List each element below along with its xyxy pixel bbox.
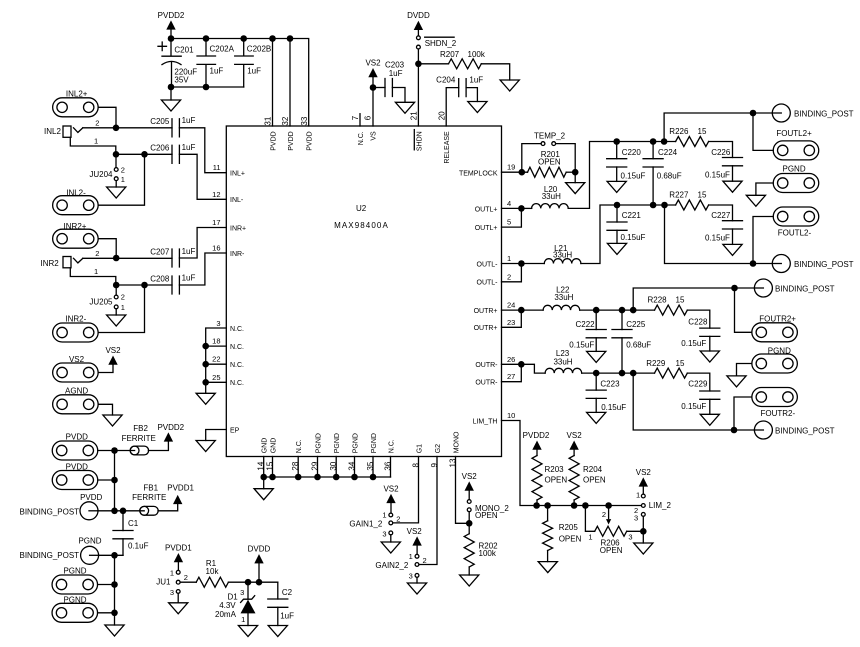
ground below GAIN1_2 (381, 542, 400, 553)
svg-text:INR-: INR- (230, 251, 245, 258)
wire R201 to node (566, 171, 575, 173)
junction PGND bus bottom (111, 610, 118, 617)
ground below R205 (538, 562, 557, 573)
junction C201 bottom (168, 84, 175, 91)
svg-text:1uF: 1uF (182, 274, 196, 283)
jumper TEMP_2 pin (left) (541, 142, 545, 146)
junction C224 top (650, 138, 657, 145)
wire pin 19 TEMPLOCK (502, 171, 528, 173)
wire pin 14 to rail (263, 457, 265, 478)
capacitor C222 plates (586, 330, 606, 338)
junction PGND bus top (111, 552, 118, 559)
capacitor C1 0.1uF (122, 511, 124, 531)
svg-text:OUTL+: OUTL+ (475, 225, 498, 232)
svg-text:N.C.: N.C. (230, 344, 244, 351)
ground below R201 (566, 183, 585, 194)
svg-text:N.C.: N.C. (389, 439, 396, 453)
svg-text:0.68uF: 0.68uF (626, 341, 651, 350)
wire GAIN2_2 to ground (416, 577, 418, 583)
junction C202A bottom (203, 84, 210, 91)
wire pin 29 to rail (317, 457, 319, 478)
wire PGND bpost to C1 node (99, 554, 123, 556)
svg-text:21: 21 (410, 111, 419, 120)
svg-text:32: 32 (281, 116, 290, 125)
svg-text:LIM_2: LIM_2 (649, 501, 672, 510)
wire pin 34 to rail (354, 457, 356, 478)
svg-text:SHDN_2: SHDN_2 (425, 39, 457, 48)
svg-text:PVDD: PVDD (66, 433, 88, 442)
junction TEMPLOCK left (519, 169, 526, 176)
svg-text:7: 7 (351, 115, 360, 120)
junction INL2 pin2 (113, 125, 120, 132)
ground below C226 (723, 181, 742, 192)
capacitor C224 plates (643, 159, 663, 167)
wire to R207 (418, 63, 448, 65)
binding post FOUTL2- (773, 207, 819, 226)
ground below C228 (700, 351, 719, 362)
svg-text:C226: C226 (711, 148, 731, 157)
junction C225 top (619, 307, 626, 314)
capacitor C206 1uF plates (172, 145, 179, 163)
svg-text:2: 2 (396, 514, 400, 523)
binding post INL2+ (53, 98, 99, 117)
svg-text:0.15uF: 0.15uF (705, 234, 730, 243)
svg-text:FOUTL2-: FOUTL2- (778, 229, 812, 238)
wire PGND bus (114, 555, 116, 613)
overline for SHDN pin label (413, 130, 415, 150)
wire pin 9 G2 to GAIN2_2 (419, 457, 437, 565)
jumper JU205 pin 2 (114, 295, 118, 299)
binding post FOUTL2+ (773, 141, 819, 160)
svg-text:1uF: 1uF (182, 116, 196, 125)
svg-text:PVDD: PVDD (80, 493, 102, 502)
svg-text:R207: R207 (440, 50, 460, 59)
svg-text:GND: GND (262, 438, 269, 454)
svg-text:3: 3 (240, 588, 244, 597)
wire PVDD bus (114, 451, 116, 511)
svg-text:0.15uF: 0.15uF (569, 341, 594, 350)
junction VS2/C203 (370, 84, 377, 91)
capacitor C203 plates (385, 79, 392, 97)
svg-text:16: 16 (212, 244, 220, 253)
svg-text:15: 15 (698, 190, 707, 199)
svg-text:BINDING_POST: BINDING_POST (775, 284, 835, 293)
junction FOUTL2+ tap (750, 110, 757, 117)
svg-text:0.15uF: 0.15uF (681, 402, 706, 411)
svg-text:33uH: 33uH (553, 358, 572, 367)
junction OUTR+ pins (518, 307, 525, 314)
svg-text:2: 2 (121, 165, 125, 174)
wire OUTL+ to binding post (664, 113, 772, 142)
svg-text:1: 1 (409, 552, 413, 561)
junction D1 (245, 579, 252, 586)
junction C223 (593, 370, 600, 377)
svg-text:BINDING_POST: BINDING_POST (20, 508, 80, 517)
junction INL2 pin1 (113, 151, 120, 158)
svg-text:JU204: JU204 (89, 170, 113, 179)
svg-text:BINDING_POST: BINDING_POST (794, 260, 854, 269)
wire TEMP_2 right to node (556, 144, 576, 173)
wire capacitor bottom rail (171, 86, 244, 88)
binding post PGND (FOUTL2) (773, 174, 819, 193)
svg-text:C204: C204 (436, 76, 456, 85)
wire L21 to OUTL- filter rail (581, 205, 676, 264)
binding post PVDD 1 (52, 441, 98, 460)
wire OUTL- to binding post (665, 205, 773, 264)
junction R206/LIM_2 pin 3 (640, 528, 647, 535)
svg-text:1uF: 1uF (247, 67, 261, 76)
svg-text:15: 15 (676, 359, 685, 368)
resistor R201 OPEN (528, 167, 567, 177)
wire MONO_2 to node (468, 512, 470, 524)
capacitor C227 0.15uF plates (723, 221, 743, 229)
resistor R205 OPEN (543, 521, 553, 551)
capacitor C202A 1uF (197, 39, 216, 88)
svg-text:JU1: JU1 (156, 578, 171, 587)
svg-text:1: 1 (636, 490, 640, 499)
wire R204 to rail (573, 500, 575, 506)
svg-text:1: 1 (94, 267, 98, 276)
svg-text:FOUTR2-: FOUTR2- (761, 409, 796, 418)
capacitor C208 1uF plates (172, 276, 179, 294)
svg-text:BINDING_POST: BINDING_POST (20, 551, 80, 560)
junction INR2 pin1 (113, 282, 120, 289)
wire rail to R205 (547, 506, 549, 521)
svg-text:3: 3 (409, 571, 413, 580)
svg-text:11: 11 (213, 163, 221, 172)
junction C220 (613, 138, 620, 145)
capacitor C229 0.15uF plates (700, 391, 720, 399)
jumper GAIN1_2 pin 1 (389, 513, 393, 517)
binding post PVDD 2 (52, 471, 98, 490)
capacitor C221 0.15uF (616, 205, 618, 222)
svg-text:27: 27 (507, 372, 515, 381)
binding post INR2+ (53, 229, 99, 248)
jumper JU205 pin 1 (114, 305, 118, 309)
resistor R229 15 (655, 368, 688, 378)
svg-text:FOUTL2+: FOUTL2+ (776, 129, 812, 138)
capacitor C228 0.15uF plates (700, 328, 720, 336)
capacitor C220 plates (607, 159, 627, 167)
jumper LIM_2 pin 3 (641, 513, 645, 517)
svg-text:OUTL+: OUTL+ (475, 206, 498, 213)
wire PVDD2 rail to pin 33 (171, 39, 309, 127)
svg-text:100k: 100k (479, 549, 497, 558)
wire R229 to C229 (687, 373, 710, 391)
wire PGND post to ground (737, 364, 752, 376)
wire to FOUTL2- (753, 217, 773, 264)
svg-text:EP: EP (230, 427, 240, 434)
junction on ground rail (269, 474, 276, 481)
svg-text:OUTR-: OUTR- (475, 362, 498, 369)
wire pin 23 OUTR+ (502, 310, 522, 327)
ground below PGND post (FOUTR2) (727, 376, 746, 387)
wire to FOUTL2+ (753, 113, 773, 150)
svg-text:PGND: PGND (78, 537, 101, 546)
ground below GAIN2_2 (407, 583, 426, 594)
wire node to R202 (468, 523, 470, 533)
junction on PVDD2 rail (168, 35, 175, 42)
resistor R204 zigzag (569, 456, 579, 500)
power symbol VS2 at R204 (567, 431, 583, 456)
svg-text:AGND: AGND (65, 386, 88, 395)
svg-text:C228: C228 (688, 317, 708, 326)
binding post AGND (53, 395, 99, 414)
wire C205 to pin 11 (179, 128, 226, 173)
ground below C229 (700, 414, 719, 425)
wire VS2 to pin 6 (372, 77, 374, 126)
wire pin 27 OUTR- (502, 364, 522, 381)
svg-text:0.15uF: 0.15uF (621, 171, 646, 180)
svg-text:C2: C2 (282, 588, 293, 597)
wire N.C. pin 22 stub (206, 363, 227, 365)
capacitor C207 1uF plates (172, 249, 179, 267)
svg-text:INL2: INL2 (44, 127, 61, 136)
svg-text:20: 20 (437, 111, 446, 120)
wire N.C. pin 25 stub (206, 381, 227, 383)
svg-text:PVDD: PVDD (271, 131, 278, 150)
svg-text:PVDD2: PVDD2 (157, 423, 184, 432)
capacitor C204 1uF (446, 88, 459, 126)
svg-text:1uF: 1uF (182, 143, 196, 152)
wire EP to ground (206, 430, 227, 441)
wire GAIN1_2 to ground (390, 535, 392, 542)
power symbol DVDD (248, 545, 271, 583)
svg-text:LIM_TH: LIM_TH (473, 418, 498, 425)
jumper LIM_2 pin 2 (641, 504, 645, 508)
wire PGND post 1 to bus (98, 584, 115, 586)
junction PVDD bus top (111, 447, 118, 454)
wire to FOUTR2+ (735, 288, 752, 332)
junction PVDD bus mid (111, 477, 118, 484)
junction INR2- tap (141, 282, 148, 289)
ground below R202 (460, 575, 479, 586)
resistor R226 15 (676, 137, 709, 147)
junction MONO node (466, 520, 473, 527)
svg-text:C221: C221 (622, 211, 642, 220)
wire R1 to D1/C2 node (228, 581, 277, 583)
svg-text:C1: C1 (128, 519, 139, 528)
svg-text:FERRITE: FERRITE (122, 434, 156, 443)
resistor R206 OPEN potentiometer (595, 526, 627, 536)
svg-text:18: 18 (212, 337, 220, 346)
svg-text:25: 25 (212, 373, 220, 382)
wire pin 4 OUTL+ (502, 207, 522, 209)
jumper SHDN_2 (417, 30, 419, 36)
wire node to C208 (116, 284, 172, 286)
svg-text:C207: C207 (150, 247, 170, 256)
jumper GAIN2_2 pin 1 (415, 554, 419, 558)
binding post PGND (FOUTR2) (752, 354, 798, 373)
wire LIM_2 pin 3 down (642, 516, 644, 531)
wire pin 10 LIM_TH rail (502, 421, 642, 506)
junction OUTL- pins (518, 260, 525, 267)
junction on PVDD2 rail (240, 35, 247, 42)
svg-text:15: 15 (698, 127, 707, 136)
svg-text:OPEN: OPEN (538, 158, 561, 167)
svg-text:BINDING_POST: BINDING_POST (775, 426, 835, 435)
svg-text:C220: C220 (622, 148, 642, 157)
svg-text:OPEN: OPEN (475, 511, 498, 520)
junction pin 25 (202, 379, 209, 386)
junction on ground rail (314, 474, 321, 481)
svg-text:VS2: VS2 (407, 527, 423, 536)
zener diode D1 4.3V 20mA (241, 582, 256, 625)
junction on ground rail (295, 474, 302, 481)
svg-text:VS: VS (371, 131, 378, 141)
resistor R228 15 (655, 305, 688, 315)
svg-text:U2: U2 (356, 204, 367, 213)
svg-text:PVDD1: PVDD1 (167, 484, 194, 493)
svg-text:PGND: PGND (783, 165, 806, 174)
svg-text:FB2: FB2 (133, 424, 148, 433)
junction C225 bottom (619, 370, 626, 377)
wire pin 15 to rail (272, 457, 274, 478)
wire pin 30 to rail (335, 457, 337, 478)
svg-text:35V: 35V (174, 76, 189, 85)
svg-text:4: 4 (507, 199, 511, 208)
jack INL2 (63, 126, 116, 154)
svg-text:TEMPLOCK: TEMPLOCK (459, 170, 498, 177)
junction TEMPLOCK right (572, 169, 579, 176)
jumper MONO_2 pin (top) (467, 500, 471, 504)
svg-text:MONO: MONO (454, 431, 461, 453)
inductor L21 33uH (544, 259, 581, 264)
capacitor C226 0.15uF plates (723, 158, 743, 166)
svg-text:C224: C224 (658, 148, 678, 157)
binding post INL2- (53, 196, 99, 215)
svg-text:19: 19 (507, 163, 515, 172)
label SHDN_2 with overline (425, 37, 457, 48)
svg-text:3: 3 (216, 319, 220, 328)
ground below pin 14 (254, 489, 273, 500)
wire JU204 to ground (115, 181, 117, 187)
svg-text:FOUTR2+: FOUTR2+ (759, 314, 796, 323)
inductor L20 33uH (532, 204, 569, 209)
svg-text:C229: C229 (688, 379, 708, 388)
svg-text:OUTL-: OUTL- (477, 261, 499, 268)
ground below N.C. bus (196, 393, 215, 404)
wire to L22 (521, 309, 543, 311)
jumper MONO_2 pin (bottom) (467, 508, 471, 512)
power symbol VS2 (636, 468, 652, 494)
svg-text:R227: R227 (669, 190, 689, 199)
junction on ground rail (370, 474, 377, 481)
svg-text:OUTR+: OUTR+ (474, 308, 498, 315)
capacitor C203 1uF (373, 87, 385, 89)
svg-text:PGND: PGND (334, 433, 341, 453)
junction FOUTR2+ tap (731, 285, 738, 292)
wire FB2 to PVDD2 (148, 441, 168, 450)
svg-text:0.68uF: 0.68uF (657, 171, 682, 180)
svg-text:FB1: FB1 (143, 484, 158, 493)
svg-text:24: 24 (507, 301, 515, 310)
svg-text:1: 1 (121, 175, 125, 184)
svg-text:33uH: 33uH (554, 293, 573, 302)
ground below C227 (723, 244, 742, 255)
svg-text:1: 1 (170, 569, 174, 578)
ground below PGND bus (105, 625, 124, 636)
svg-text:RELEASE: RELEASE (444, 131, 451, 164)
svg-text:15: 15 (676, 296, 685, 305)
wire to L23 (521, 364, 545, 373)
svg-text:GND: GND (271, 438, 278, 454)
wire pin 8 G1 to GAIN1_2 (393, 457, 419, 523)
power symbol PVDD2 at R203 (523, 431, 550, 456)
svg-text:C227: C227 (711, 211, 731, 220)
ground below AGND (103, 415, 122, 426)
wire pin 32 (289, 39, 291, 127)
svg-text:FERRITE: FERRITE (132, 493, 166, 502)
svg-text:10: 10 (507, 411, 515, 420)
svg-text:INR2: INR2 (41, 259, 60, 268)
jumper JU1 pin 2 (176, 580, 180, 584)
capacitor C223 plates (586, 390, 606, 398)
svg-text:R204: R204 (583, 465, 603, 474)
svg-text:PGND: PGND (353, 433, 360, 453)
svg-text:OPEN: OPEN (600, 546, 623, 555)
jumper JU204 pin 1 (114, 177, 118, 181)
svg-text:INR+: INR+ (230, 225, 246, 232)
svg-text:17: 17 (212, 218, 220, 227)
op-amp U2 MAX98400A IC body (226, 126, 501, 457)
svg-text:INL+: INL+ (230, 171, 245, 178)
junction SHDN node (415, 61, 422, 68)
junction on ground rail (351, 474, 358, 481)
jumper TEMP_2 (522, 144, 541, 173)
binding post PGND (81, 546, 99, 564)
svg-text:1: 1 (507, 254, 511, 263)
svg-text:G2: G2 (435, 444, 442, 453)
svg-text:PVDD2: PVDD2 (523, 431, 550, 440)
svg-text:1: 1 (94, 137, 98, 146)
svg-text:TEMP_2: TEMP_2 (534, 131, 566, 140)
capacitor C201 220uF 35V electrolytic (158, 39, 181, 88)
svg-text:PVDD2: PVDD2 (158, 11, 185, 20)
capacitor C222 0.15uF (595, 310, 597, 329)
ground below R207 (500, 80, 519, 91)
junction C224 bottom (650, 202, 657, 209)
junction PVDD bus bottom (111, 508, 118, 515)
power symbol VS2 (383, 484, 399, 513)
capacitor C223 0.15uF (595, 373, 597, 390)
power symbol VS2 (365, 59, 381, 78)
svg-text:33: 33 (300, 116, 309, 125)
junction FOUTR2- tap (731, 427, 738, 434)
wire FB1 to PVDD1 (158, 504, 178, 511)
power symbol DVDD (407, 11, 430, 30)
svg-text:1: 1 (241, 615, 245, 624)
junction on PVDD2 rail (203, 35, 210, 42)
wire L22 to OUTR+ filter rail (580, 309, 655, 311)
wire jack tip to C205 (83, 127, 172, 129)
svg-text:2: 2 (507, 272, 511, 281)
svg-text:INL-: INL- (230, 197, 244, 204)
ground below C222 (587, 351, 606, 362)
power symbol VS2 (105, 346, 121, 365)
svg-text:D1: D1 (227, 592, 238, 601)
svg-text:3: 3 (628, 533, 632, 542)
wire to FOUTR2- (734, 397, 752, 430)
svg-text:C201: C201 (174, 46, 194, 55)
svg-text:G1: G1 (417, 444, 424, 453)
jumper JU1 pin 3 (176, 590, 180, 594)
power symbol PVDD1 (165, 544, 192, 571)
jack INR2 (63, 257, 116, 286)
junction on LIM_TH rail (605, 502, 612, 509)
binding post PVDD (80, 502, 98, 520)
svg-text:VS2: VS2 (462, 472, 478, 481)
